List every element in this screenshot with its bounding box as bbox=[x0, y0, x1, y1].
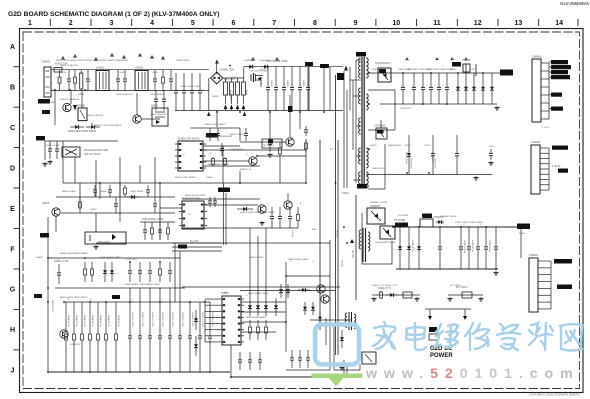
wire bus pair a bbox=[223, 183, 225, 245]
wire ic6650 pin wire 3 bbox=[205, 310, 219, 312]
line filter LF6002 bbox=[135, 71, 148, 91]
grid column tick 10 bbox=[416, 19, 418, 26]
capacitor C675 bbox=[178, 302, 182, 372]
svg-text:1N60p CT?2 1N60p CT?4: 1N60p CT?2 1N60p CT?4 bbox=[372, 285, 398, 287]
transformer T6602 coil left bbox=[359, 230, 361, 249]
warning triangle W7 bbox=[150, 55, 154, 58]
wire CN6402 pin 4 bbox=[540, 163, 549, 165]
wire drop d-e 1 bbox=[79, 183, 81, 208]
svg-text:C6659: C6659 bbox=[36, 257, 43, 259]
svg-text:R6020 C6021 R6022: R6020 C6021 R6022 bbox=[205, 124, 226, 126]
wire arrow down 2 bbox=[464, 309, 466, 316]
mosfet Q6608 bbox=[380, 226, 395, 239]
net label CN6403-3 bbox=[551, 70, 568, 74]
wire CN6403 pin 3 bbox=[541, 78, 549, 80]
svg-text:C6626 C6627: C6626 C6627 bbox=[372, 168, 386, 170]
resistor R6640 bbox=[79, 197, 82, 213]
wire bottom bus 2 bbox=[230, 376, 335, 378]
capacitor C6041 bbox=[182, 73, 186, 111]
svg-text:11: 11 bbox=[433, 20, 441, 27]
resistor R676 bbox=[115, 302, 118, 372]
wire CN6404 pin 8 bbox=[538, 308, 551, 310]
capacitor C6451 bbox=[467, 227, 471, 269]
warning triangle W15 bbox=[405, 57, 409, 60]
transistor Q6660 bbox=[60, 330, 68, 338]
transformer T6601 primary coil y58 bbox=[359, 58, 361, 78]
wire CN6402 pin 6 bbox=[540, 173, 549, 175]
svg-text:1N60p CT?4: 1N60p CT?4 bbox=[378, 288, 392, 290]
watermark char dian bbox=[406, 323, 426, 350]
capacitor C6043 bbox=[198, 73, 202, 111]
wire CN6402 pin 1 bbox=[540, 147, 549, 149]
capacitor C6454 bbox=[494, 227, 498, 269]
resistor R6000 bbox=[58, 70, 61, 91]
svg-text:C6657 0.1 50V: C6657 0.1 50V bbox=[201, 312, 203, 327]
diode D6410 bbox=[436, 220, 444, 224]
wire primary minus rail left ext bbox=[175, 110, 200, 112]
wire drop d-e 4 bbox=[99, 183, 101, 199]
diode D6659 bbox=[303, 302, 307, 315]
wire AC neutral rail bbox=[51, 90, 209, 92]
transformer T6601 core bbox=[362, 57, 364, 188]
svg-text:C6620 100u: C6620 100u bbox=[405, 152, 407, 165]
capacitor C6610 bbox=[401, 73, 405, 104]
wire right col 2 bbox=[325, 318, 327, 345]
svg-text:C6440 470u: C6440 470u bbox=[411, 240, 413, 253]
svg-text:R6640 4.7K: R6640 4.7K bbox=[67, 315, 69, 327]
wire f-row left bbox=[48, 257, 80, 259]
ground gnd2 bbox=[42, 162, 47, 166]
svg-text:F6601: F6601 bbox=[519, 233, 526, 235]
wire CN6403 pin 7 bbox=[541, 110, 549, 112]
svg-text:F6001 T5.0A 250V: F6001 T5.0A 250V bbox=[60, 64, 79, 67]
capacitor C6681 bbox=[298, 350, 302, 368]
resistor R6610 bbox=[212, 157, 215, 166]
wire CN6403 pin 8 bbox=[541, 118, 549, 120]
svg-text:R6645 C6644: R6645 C6644 bbox=[62, 191, 76, 193]
wire t6601 left col2 bbox=[346, 90, 348, 188]
diode D6662 bbox=[311, 302, 315, 315]
resistor R670 bbox=[65, 302, 68, 372]
svg-text:14: 14 bbox=[555, 20, 563, 27]
svg-text:IC6601 STR-W6753: IC6601 STR-W6753 bbox=[178, 138, 200, 141]
wire col c-d 6 bbox=[154, 157, 156, 197]
svg-text:D6420 D6421 D6422: D6420 D6421 D6422 bbox=[375, 242, 396, 244]
wire sec loop right bbox=[394, 90, 396, 130]
net label b-ovp bbox=[178, 245, 187, 249]
wire e-row top rail bbox=[56, 196, 175, 198]
wire 12V rail bbox=[393, 226, 528, 228]
warning triangle under rail 1 bbox=[207, 112, 211, 117]
wire ic6601 upper row bbox=[203, 145, 240, 147]
warning triangle W14 bbox=[464, 57, 468, 60]
inductor L6460 bbox=[403, 292, 412, 298]
thermistor TH6400 bbox=[465, 64, 467, 73]
svg-text:C6020: C6020 bbox=[231, 77, 238, 79]
wire 12v label drop bbox=[520, 227, 522, 258]
mosfet Q6601 bbox=[250, 75, 252, 81]
wire cluster drop bbox=[285, 262, 287, 352]
net label row H left bbox=[34, 294, 42, 298]
capacitor C6624 bbox=[489, 149, 493, 160]
ground gnd lc2 bbox=[414, 297, 419, 301]
thermistor TH6001 bbox=[62, 147, 80, 157]
svg-text:Q6660 DTC: Q6660 DTC bbox=[51, 300, 53, 312]
watermark char wang bbox=[560, 324, 582, 350]
grid column tick 11 bbox=[456, 19, 458, 26]
warning triangle W12 bbox=[435, 57, 439, 60]
wire q6609 up bbox=[289, 95, 291, 138]
capacitor C6631 bbox=[278, 207, 282, 228]
svg-text:C6651 0.1 50V: C6651 0.1 50V bbox=[141, 312, 143, 327]
wire ic6650 right rail 2 bbox=[241, 321, 286, 323]
svg-text:R6004 (RELAY): R6004 (RELAY) bbox=[88, 114, 104, 117]
grid column tick 12 bbox=[497, 19, 499, 26]
wire drop d-e 3 bbox=[159, 183, 161, 208]
net label CN6403-2 bbox=[551, 65, 571, 69]
svg-text:R6023 C6024: R6023 C6024 bbox=[230, 134, 244, 136]
wire comb stub 4 bbox=[169, 288, 171, 302]
diode D6658 bbox=[298, 288, 310, 292]
grid row tick F bbox=[14, 268, 20, 270]
svg-text:R6036: R6036 bbox=[302, 80, 304, 87]
diode D6001 bbox=[70, 125, 84, 129]
capacitor C6620 bbox=[431, 135, 435, 175]
diode D6652 bbox=[264, 298, 268, 316]
fuse PS6601 on wire bbox=[288, 106, 293, 112]
capacitor C6011 bbox=[55, 141, 59, 159]
svg-text:Q6601: Q6601 bbox=[259, 69, 266, 71]
capacitor C6452 bbox=[476, 227, 480, 269]
capacitor C6450 bbox=[459, 227, 463, 269]
diode D6004 bbox=[246, 65, 256, 69]
grid column tick 4 bbox=[171, 19, 173, 26]
capacitor C6621 bbox=[455, 135, 459, 175]
wire lc net 2 bbox=[448, 294, 483, 296]
wire ctl drop4 bbox=[299, 111, 301, 130]
svg-text:450V: 450V bbox=[245, 90, 247, 96]
transformer T6603 coil r bbox=[354, 314, 356, 328]
wire junction dots bbox=[47, 65, 497, 378]
warning triangle W2 bbox=[73, 54, 77, 57]
wire e-row mid rail bbox=[61, 212, 175, 214]
svg-text:TR-1520B: TR-1520B bbox=[394, 219, 405, 222]
svg-text:C6610 C6611 C6612 C6613 D6: C6610 C6611 C6612 C6613 D6612 D6613 D661… bbox=[398, 69, 454, 71]
diode D6421 bbox=[407, 227, 411, 269]
svg-text:9: 9 bbox=[354, 20, 358, 27]
wire q cluster bbox=[286, 275, 330, 277]
net label PS-ON bbox=[40, 233, 49, 238]
degauss arrow bbox=[73, 105, 77, 111]
wire col c-d 5 bbox=[139, 165, 141, 183]
svg-text:4CT UNK-1: 4CT UNK-1 bbox=[456, 287, 469, 289]
svg-text:C: C bbox=[10, 125, 15, 132]
net label CN6402-2 bbox=[558, 169, 568, 173]
wire CN6402 pin 3 bbox=[540, 158, 549, 160]
svg-text:D: D bbox=[10, 165, 15, 172]
net label q6609 bbox=[268, 140, 273, 144]
wire ic6650 pin wire 2 bbox=[205, 304, 219, 306]
wire g long right 2 bbox=[240, 290, 335, 292]
wire row f long bbox=[175, 242, 330, 244]
wire ic drop bbox=[239, 128, 241, 141]
warning triangle W9 bbox=[215, 60, 219, 63]
svg-text:SR-DET: SR-DET bbox=[351, 250, 353, 259]
capacitor C6615 bbox=[445, 73, 449, 104]
net label REG bbox=[452, 62, 461, 67]
wire bottom bus 3 bbox=[286, 369, 330, 371]
wire ladder drop1 bbox=[174, 243, 176, 302]
svg-text:C6035: C6035 bbox=[286, 80, 288, 87]
transformer T6601 primary coil y118 bbox=[359, 118, 361, 134]
svg-text:C6003 C6004 X2: C6003 C6004 X2 bbox=[116, 94, 134, 96]
capacitor C678 bbox=[208, 302, 212, 372]
net label REG-ON bbox=[218, 188, 230, 193]
svg-text:Q: Q bbox=[246, 154, 248, 156]
svg-text:D6660 D6661 C6661: D6660 D6661 C6661 bbox=[100, 257, 121, 259]
svg-text:C6656 0.1 50V: C6656 0.1 50V bbox=[191, 312, 193, 327]
wire f-g link 1 bbox=[249, 228, 251, 298]
reference designator rows bbox=[36, 60, 549, 319]
wire CN6404 pin 4 bbox=[538, 281, 551, 283]
wire CN6403 label 1 bbox=[549, 61, 551, 63]
grid column tick 3 bbox=[131, 19, 133, 26]
wire ic right row3 bbox=[203, 165, 260, 167]
watermark char zi bbox=[497, 324, 520, 350]
svg-text:B+ OVP: B+ OVP bbox=[190, 241, 199, 243]
capacitor C6663 bbox=[148, 262, 152, 282]
resistor R6661 bbox=[91, 262, 94, 282]
svg-text:Q: Q bbox=[312, 261, 314, 263]
opto coupler PC6601 bbox=[85, 232, 126, 244]
net label SW+B bbox=[337, 73, 344, 80]
mosfet Q6607 bbox=[367, 208, 385, 224]
capacitor C6022 electrolytic bbox=[236, 82, 240, 95]
wire bus V2 bbox=[335, 75, 337, 355]
wire CN6404 pin 2 bbox=[538, 267, 551, 269]
wire ctl drop3 bbox=[269, 111, 271, 136]
svg-text:C6614 R6615: C6614 R6615 bbox=[230, 149, 244, 151]
capacitor C6609 bbox=[216, 128, 220, 141]
diode D6661 bbox=[110, 262, 114, 282]
svg-text:D6603 F6602: D6603 F6602 bbox=[388, 145, 402, 147]
ground gnd1 bbox=[47, 160, 52, 164]
wire ic to base bbox=[203, 160, 249, 162]
svg-text:2 UF-00: 2 UF-00 bbox=[552, 166, 561, 168]
transistor Q6661 bbox=[317, 285, 325, 293]
transistor Q6662 bbox=[321, 295, 329, 303]
capacitor C6662 bbox=[138, 262, 142, 282]
capacitor C6031 bbox=[274, 67, 278, 111]
net label RLY-DRV bbox=[36, 136, 45, 141]
ground gnd aux bbox=[473, 176, 478, 180]
watermark logo blue bracket bbox=[315, 325, 359, 365]
capacitor C6632 bbox=[288, 207, 292, 228]
svg-text:J: J bbox=[11, 368, 15, 375]
mosfet Q6670 bbox=[362, 352, 376, 364]
component value labels bbox=[58, 69, 495, 301]
svg-text:AC: AC bbox=[51, 101, 55, 104]
grid column tick 8 bbox=[334, 19, 336, 26]
wire long control rail bbox=[63, 182, 306, 184]
wire drop d-e 2 bbox=[119, 183, 121, 222]
warning triangle W3 bbox=[94, 57, 98, 60]
wire f-row mid bbox=[96, 242, 175, 244]
wire +B rail bbox=[369, 72, 500, 74]
wire col c-d 4 bbox=[119, 157, 121, 197]
svg-text:CN6404: CN6404 bbox=[529, 254, 539, 257]
connector CN6402 bbox=[531, 145, 540, 194]
wire t6601 stub1 bbox=[350, 79, 361, 81]
wire pdet drop bbox=[308, 66, 310, 111]
svg-text:C6658 0.1 50V: C6658 0.1 50V bbox=[211, 312, 213, 327]
wire CN6402 pin 8 bbox=[540, 184, 549, 186]
diode D6610 bbox=[456, 73, 460, 104]
wire CN6404 pin 7 bbox=[538, 301, 551, 303]
svg-text:C6005: C6005 bbox=[152, 72, 159, 74]
wire to degauss bbox=[70, 91, 72, 105]
capacitor C6682 bbox=[306, 350, 310, 368]
wire right col 1 bbox=[329, 240, 331, 370]
resistor R6641 bbox=[151, 222, 154, 240]
wire q6606 up bbox=[380, 120, 382, 128]
svg-text:LF6001: LF6001 bbox=[96, 67, 105, 70]
svg-text:C6040 C6041: C6040 C6041 bbox=[176, 60, 190, 62]
capacitor C6640 bbox=[114, 197, 118, 213]
diode D6657 bbox=[274, 298, 278, 316]
wire ladder 1 bbox=[172, 242, 222, 244]
wire relay coil bbox=[81, 91, 83, 109]
diode D6005 bbox=[261, 65, 271, 69]
svg-text:C 100u: C 100u bbox=[291, 230, 293, 238]
wire comb bus top bbox=[64, 301, 122, 303]
watermark char wei bbox=[435, 324, 458, 348]
wire CN6403 label 5 bbox=[549, 94, 551, 96]
wire sec loop2 bot bbox=[368, 188, 385, 190]
resistor R673 bbox=[89, 302, 92, 372]
wire bus V3 down bbox=[343, 360, 345, 377]
wire g-row 2 bbox=[55, 287, 185, 289]
svg-text:D6601: D6601 bbox=[372, 69, 379, 71]
capacitor C6042 bbox=[190, 73, 194, 111]
capacitor C6006 bbox=[169, 70, 173, 91]
wire CN6402 pin 9 bbox=[540, 189, 549, 191]
svg-text:C6003: C6003 bbox=[118, 72, 125, 74]
wire to relay bbox=[54, 91, 56, 126]
ground gnd wm bbox=[339, 366, 344, 370]
net label AC-IN bbox=[38, 99, 50, 104]
warning triangle W5 bbox=[122, 55, 126, 58]
diode D6606 bbox=[237, 207, 253, 211]
svg-text:R C: R C bbox=[330, 149, 334, 151]
wire arrow down 1 bbox=[429, 309, 431, 316]
switch box S6001 bbox=[152, 108, 168, 126]
wire t6601 stub5 bbox=[353, 179, 361, 181]
watermark logo green swoosh bbox=[312, 374, 363, 387]
wire col c-d 3 bbox=[95, 160, 97, 197]
diode D6641 bbox=[126, 195, 140, 199]
svg-text:D6603 S15: D6603 S15 bbox=[410, 158, 412, 169]
net label CN6402-1 bbox=[552, 146, 568, 150]
wire q6605 col2 bbox=[55, 216, 57, 232]
capacitor C6023 electrolytic bbox=[242, 82, 246, 95]
wire CN6402 pin 2 bbox=[540, 152, 549, 154]
wire bus pair b bbox=[225, 193, 227, 245]
svg-text:1 2 3 4: 1 2 3 4 bbox=[542, 127, 549, 129]
transformer T6601 primary coil y88 bbox=[359, 88, 361, 104]
capacitor C6004 bbox=[123, 70, 127, 91]
svg-text:R6010 1/2W C6012 R6013: R6010 1/2W C6012 R6013 bbox=[95, 125, 122, 127]
resistor R6002 bbox=[162, 70, 165, 91]
svg-text:R6641 4.7K: R6641 4.7K bbox=[75, 315, 77, 327]
wire CN6404 pin 5 bbox=[538, 287, 551, 289]
diode D6420 bbox=[398, 227, 402, 269]
wire t6601 stub4 bbox=[356, 155, 361, 157]
wire +B return rail bbox=[380, 103, 497, 105]
wire sec loop2 drop bbox=[384, 144, 386, 189]
svg-text:1-474-099-11 (KLV-37M400A) 200: 1-474-099-11 (KLV-37M400A) 2008.P1 bbox=[528, 393, 580, 397]
wire f-g link 2 bbox=[257, 236, 259, 298]
ground gnd c6624 bbox=[488, 161, 493, 165]
resistor R6660 bbox=[84, 262, 87, 282]
svg-text:C6452 470u: C6452 470u bbox=[471, 240, 473, 253]
wire ic6650 right rail 3 bbox=[241, 311, 286, 313]
wire comb stub 3 bbox=[159, 288, 161, 302]
resistor R6460 bbox=[380, 291, 383, 299]
svg-text:CPS6607 D-9435: CPS6607 D-9435 bbox=[370, 202, 388, 204]
wire ic6650 down bbox=[230, 345, 232, 377]
wire sec loop bottom bbox=[368, 129, 395, 131]
net label AC-DET bbox=[320, 64, 329, 68]
grid column tick 5 bbox=[212, 19, 214, 26]
capacitor C6612 bbox=[421, 73, 425, 104]
svg-text:3: 3 bbox=[109, 20, 113, 27]
svg-text:CN6402: CN6402 bbox=[531, 141, 541, 144]
wire AC live rail bbox=[51, 69, 209, 71]
capacitor C6661 bbox=[128, 262, 132, 282]
transformer T6601 secondary coil y58 bbox=[366, 58, 368, 78]
wire CN6402 pin 7 bbox=[540, 179, 549, 181]
capacitor C6641 bbox=[143, 222, 147, 240]
wire ctl drop2 bbox=[239, 171, 241, 183]
transistor Q6603 bbox=[258, 205, 266, 213]
warning triangle W13 bbox=[450, 57, 454, 60]
resistor R675 bbox=[105, 302, 108, 372]
svg-text:G: G bbox=[10, 287, 16, 294]
transistor Q6604 bbox=[284, 201, 292, 209]
wire CN6404 pin 3 bbox=[538, 274, 551, 276]
resistor R6612 bbox=[305, 140, 308, 152]
relay RY6001 bbox=[78, 108, 87, 121]
warning triangle W4 bbox=[110, 53, 114, 56]
transistor Q6609 bbox=[286, 138, 294, 146]
capacitor C671 bbox=[138, 302, 142, 372]
grid column tick 1 bbox=[49, 19, 51, 26]
diode D6612 bbox=[472, 73, 476, 104]
svg-text:R6001 C6001 R6002 C6003 LF: R6001 C6001 R6002 C6003 LF6001 C6004 R60… bbox=[56, 60, 129, 62]
svg-text:KLV-26M400A: KLV-26M400A bbox=[560, 1, 590, 6]
grid row tick H bbox=[14, 349, 20, 351]
svg-text:R6655 R6656 R6657: R6655 R6656 R6657 bbox=[246, 317, 267, 319]
wire CN6403 pin 4 bbox=[541, 86, 549, 88]
diode D6422 bbox=[417, 227, 421, 269]
capacitor C6046 bbox=[162, 90, 166, 111]
capacitor C6010 bbox=[48, 141, 52, 159]
wire arrow rail bbox=[425, 308, 471, 310]
wire bridge up bbox=[243, 67, 245, 78]
svg-text:D6655 D6656 Q6661: D6655 D6656 Q6661 bbox=[288, 259, 309, 261]
svg-text:R6650 R6651 C6652 R6653 C6: R6650 R6651 C6652 R6653 C6654 bbox=[125, 284, 160, 286]
